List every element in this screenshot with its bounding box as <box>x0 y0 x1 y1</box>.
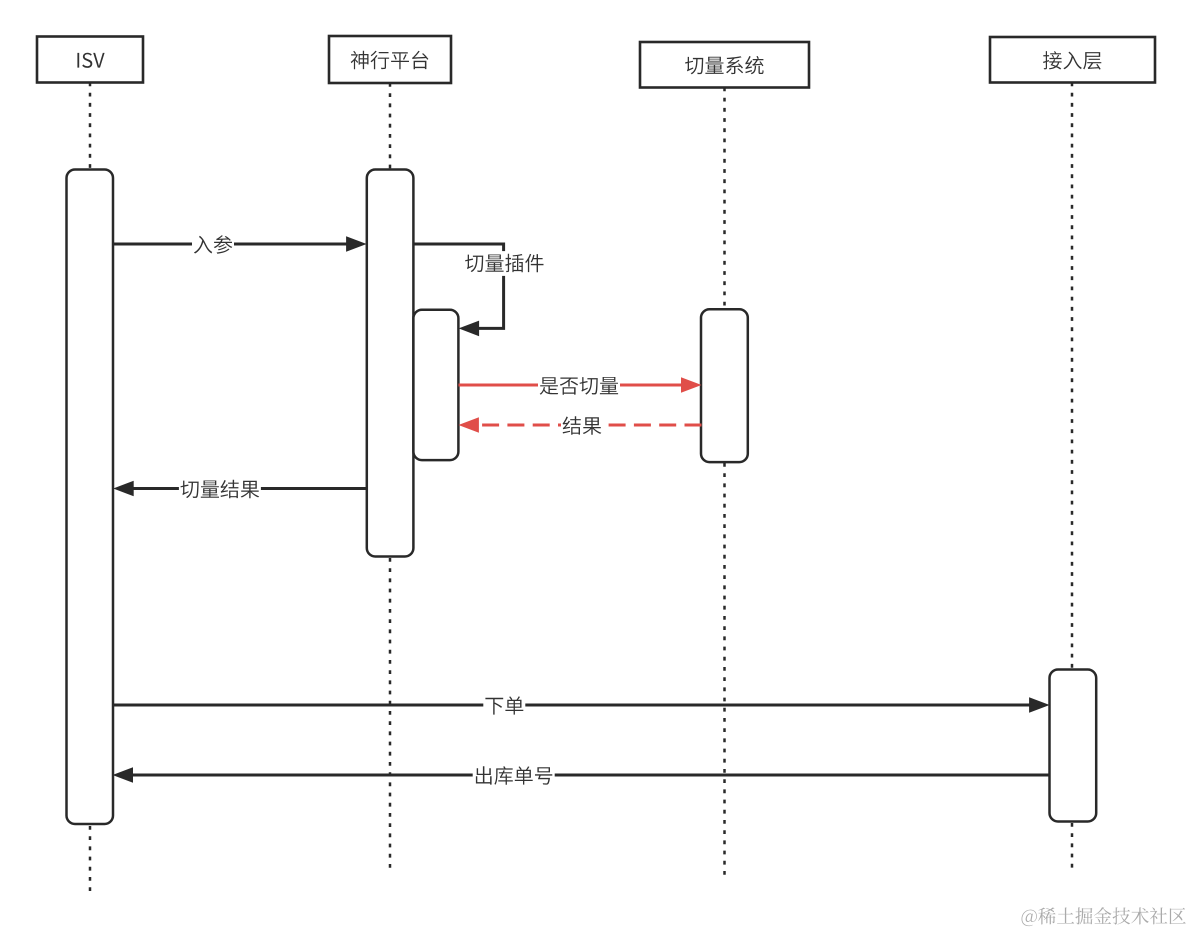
lifeline 神行平台 <box>389 83 392 170</box>
lifeline ISV <box>89 83 92 170</box>
lifeline ISV lower <box>89 826 92 893</box>
message 入参 (ISV→神行平台) <box>113 233 367 258</box>
activation bar 接入层 <box>1050 670 1097 822</box>
message 是否切量 (切量插件→切量系统) <box>459 374 702 399</box>
activation bar 切量系统 <box>701 309 748 462</box>
participant box 神行平台 <box>329 36 451 83</box>
lifeline 切量系统 lower <box>723 463 726 878</box>
lifeline 接入层 lower <box>1071 823 1074 872</box>
lifeline 切量系统 <box>723 88 726 310</box>
message 出库单号 (接入层→ISV) <box>113 764 1050 789</box>
participant box 切量系统 <box>640 42 809 88</box>
participant box ISV <box>37 37 143 83</box>
lifeline 神行平台 lower <box>389 558 392 872</box>
self-call 切量插件 (神行平台→切量插件) <box>414 244 546 336</box>
activation bar 切量插件 (nested on 神行平台) <box>413 310 458 460</box>
message 切量结果 (神行平台→ISV) <box>113 477 367 502</box>
activation bar ISV <box>67 170 114 825</box>
participant box 接入层 <box>990 37 1155 83</box>
activation bar 神行平台 <box>367 170 414 557</box>
message 下单 (ISV→接入层) <box>113 694 1050 719</box>
watermark @稀土掘金技术社区 <box>1022 907 1186 926</box>
lifeline 接入层 <box>1071 83 1074 670</box>
